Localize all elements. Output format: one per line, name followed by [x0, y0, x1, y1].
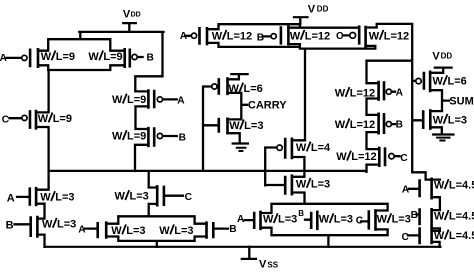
svg-text:C: C	[356, 216, 364, 227]
svg-text:A: A	[237, 214, 245, 225]
svg-text:W: W	[212, 30, 223, 42]
svg-text:V: V	[259, 258, 267, 270]
svg-text:L=3: L=3	[448, 114, 467, 126]
svg-text:W: W	[263, 214, 274, 226]
svg-text:W: W	[296, 178, 307, 190]
svg-text:B: B	[257, 33, 264, 44]
svg-text:L=9: L=9	[53, 113, 72, 125]
svg-text:W: W	[296, 142, 307, 154]
svg-text:W: W	[335, 88, 346, 100]
svg-text:L=6: L=6	[447, 76, 466, 88]
svg-text:L=9: L=9	[127, 131, 146, 143]
svg-text:A: A	[7, 192, 15, 204]
svg-text:W: W	[115, 191, 126, 203]
svg-text:L=4.5: L=4.5	[449, 230, 474, 242]
svg-text:L=4.5: L=4.5	[449, 180, 474, 192]
svg-text:B: B	[179, 132, 186, 143]
svg-text:L=6: L=6	[243, 83, 262, 95]
svg-text:W: W	[434, 180, 445, 192]
svg-text:W: W	[335, 119, 346, 131]
svg-text:C: C	[2, 114, 10, 125]
svg-text:B: B	[147, 53, 154, 64]
svg-text:L=9: L=9	[56, 51, 75, 63]
svg-text:W: W	[319, 214, 330, 226]
svg-text:L=12: L=12	[384, 30, 409, 42]
svg-text:C: C	[185, 192, 193, 203]
svg-text:W: W	[433, 76, 444, 88]
svg-text:B: B	[229, 224, 236, 235]
svg-text:A: A	[177, 95, 185, 106]
svg-text:W: W	[88, 51, 99, 63]
svg-text:C: C	[336, 31, 344, 42]
svg-text:W: W	[111, 225, 122, 237]
svg-text:L=3: L=3	[129, 191, 148, 203]
svg-text:W: W	[112, 131, 123, 143]
svg-text:A: A	[78, 225, 86, 236]
svg-text:W: W	[41, 51, 52, 63]
svg-text:L=12: L=12	[350, 119, 375, 131]
svg-text:B: B	[6, 220, 14, 232]
svg-text:L=3: L=3	[392, 214, 411, 226]
svg-text:L=3: L=3	[126, 225, 145, 237]
svg-text:W: W	[159, 225, 170, 237]
svg-text:B: B	[298, 209, 304, 218]
svg-text:W: W	[336, 151, 347, 163]
svg-text:A: A	[396, 87, 404, 98]
svg-text:W: W	[229, 83, 240, 95]
svg-text:W: W	[369, 30, 380, 42]
svg-text:A: A	[0, 53, 8, 64]
svg-text:L=3: L=3	[174, 225, 193, 237]
svg-text:SS: SS	[267, 260, 278, 269]
svg-text:L=4: L=4	[311, 142, 331, 154]
svg-text:W: W	[377, 214, 388, 226]
svg-text:W: W	[42, 218, 53, 230]
svg-text:W: W	[433, 114, 444, 126]
svg-text:L=3: L=3	[244, 120, 263, 132]
svg-text:DD: DD	[317, 4, 329, 13]
svg-text:V: V	[432, 50, 440, 62]
svg-text:L=12: L=12	[351, 151, 376, 163]
svg-text:C: C	[402, 232, 410, 243]
svg-text:W: W	[38, 113, 49, 125]
svg-text:B: B	[396, 119, 403, 130]
svg-text:L=4.5: L=4.5	[449, 211, 474, 223]
svg-text:SUM: SUM	[449, 96, 473, 108]
svg-text:L=3: L=3	[334, 214, 353, 226]
svg-text:DD: DD	[131, 12, 141, 19]
svg-text:L=9: L=9	[103, 51, 122, 63]
svg-text:L=9: L=9	[127, 94, 146, 106]
svg-text:L=3: L=3	[55, 192, 74, 204]
svg-text:W: W	[40, 192, 51, 204]
svg-text:W: W	[290, 30, 301, 42]
svg-text:W: W	[434, 211, 445, 223]
svg-text:W: W	[229, 120, 240, 132]
svg-text:W: W	[434, 230, 445, 242]
svg-text:DD: DD	[441, 51, 453, 60]
svg-text:C: C	[400, 153, 408, 164]
svg-text:L=12: L=12	[227, 30, 252, 42]
svg-text:L=3: L=3	[311, 178, 330, 190]
svg-text:L=12: L=12	[350, 88, 375, 100]
svg-text:B: B	[411, 210, 418, 221]
svg-text:A: A	[180, 31, 188, 42]
svg-text:L=3: L=3	[57, 218, 76, 230]
svg-text:L=12: L=12	[305, 30, 330, 42]
svg-text:CARRY: CARRY	[248, 100, 287, 112]
svg-text:W: W	[112, 94, 123, 106]
svg-text:L=3: L=3	[278, 214, 297, 226]
svg-text:A: A	[402, 184, 410, 195]
svg-text:V: V	[308, 4, 316, 16]
